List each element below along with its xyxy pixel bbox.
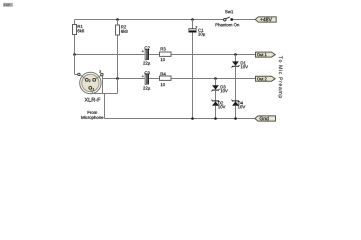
row 2 wire (out 2) bbox=[102, 78, 256, 80]
node D1 chain / row1 bbox=[234, 53, 237, 56]
label To Mic Preamp (vertical) bbox=[278, 56, 283, 98]
pin number 2 bbox=[89, 80, 91, 82]
zener D4 bbox=[231, 100, 245, 119]
capacitor C3 bbox=[142, 71, 150, 90]
node R2/row2 junction bbox=[116, 77, 119, 80]
wire row1 to XLR pin2 bbox=[75, 55, 86, 79]
ground row wire bbox=[105, 118, 256, 120]
zener D1 bbox=[231, 55, 248, 101]
wire XLR pin1 to ground row bbox=[91, 79, 118, 119]
pin number 1 bbox=[93, 88, 94, 90]
logo badge top-left bbox=[3, 3, 13, 7]
capacitor C1 bbox=[189, 18, 206, 118]
resistor R4 bbox=[160, 72, 172, 86]
resistor R2 bbox=[116, 18, 128, 78]
contact bubble pin2 bbox=[78, 73, 80, 75]
node D3 chain / row2 bbox=[214, 77, 217, 80]
label From Microphone bbox=[81, 111, 103, 120]
pin 3 bbox=[93, 79, 96, 82]
+48V rail wire bbox=[75, 19, 256, 21]
capacitor C2 bbox=[142, 46, 150, 65]
zener D3 bbox=[211, 79, 227, 101]
node C1/gnd bbox=[191, 117, 194, 120]
node D2/gnd bbox=[214, 117, 217, 120]
wire XLR pin3 to row2 bbox=[96, 75, 103, 94]
pin number 3 bbox=[99, 70, 101, 72]
terminal tag Out 2 bbox=[256, 76, 276, 81]
terminal tag Gnd bbox=[255, 116, 276, 121]
node D4/gnd bbox=[234, 117, 237, 120]
resistor R3 bbox=[160, 47, 172, 61]
XLR-F connector J1 bbox=[80, 70, 101, 101]
terminal tag Out 1 bbox=[256, 52, 276, 57]
+48V terminal tag bbox=[255, 17, 276, 22]
node R1/row1 junction bbox=[73, 53, 76, 56]
zener D2 bbox=[211, 100, 225, 119]
pin 2 bbox=[85, 79, 88, 82]
resistor R1 bbox=[73, 20, 85, 55]
row 1 wire (out 1) bbox=[75, 54, 256, 56]
contact bubble pin3 bbox=[101, 73, 103, 75]
switch Sw1 bbox=[216, 10, 240, 26]
label XLR-F bbox=[85, 98, 101, 102]
pin 1 bbox=[89, 87, 92, 90]
